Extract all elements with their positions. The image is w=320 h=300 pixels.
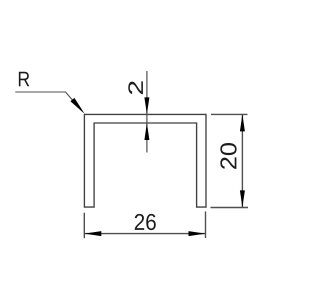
dim 26: left arrowhead (points left) [84,231,101,236]
dim 26: right arrowhead (points right) [189,231,206,236]
dim 20: bottom extension line [211,207,249,209]
dim 26: value label [135,214,156,230]
R leader line [15,92,82,111]
dim 2: value label (rotated digit 2) [128,81,143,94]
dim 26: horizontal dimension line [84,233,205,235]
dim 26: left extension line [83,213,85,239]
dim 20: value label (rotated) [220,143,236,169]
dim 26: right extension line [205,212,207,239]
dim 20: top extension line [211,113,248,115]
dim 2: dimension line (passes through wall gap) [146,71,148,153]
R leader arrowhead [70,98,84,114]
dim 20: bottom arrowhead (points down) [240,190,245,207]
U-channel profile outline [84,114,206,207]
dim 20: vertical dimension line [241,114,243,207]
dim 2: upper arrowhead (points down) [144,97,149,114]
R label [19,72,29,86]
dim 20: top arrowhead (points up) [240,114,245,131]
dim 2: lower arrowhead (points up) [144,123,149,140]
